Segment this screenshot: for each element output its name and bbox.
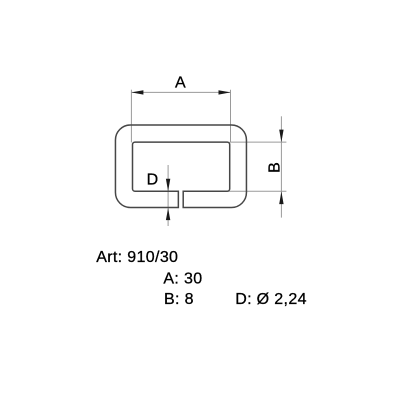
arrowhead B top — [279, 130, 283, 143]
label D — [147, 172, 159, 189]
caption Art — [96, 249, 178, 266]
svg-text:B: B — [267, 162, 284, 173]
dimension line A — [131, 91, 230, 93]
svg-text:A: 30: A: 30 — [163, 271, 202, 288]
svg-text:B: 8: B: 8 — [164, 291, 194, 308]
dimension line D — [167, 165, 169, 226]
arrowhead D top — [166, 179, 170, 192]
label B — [267, 162, 284, 173]
arrowhead A right — [219, 90, 231, 94]
ring outline (wire profile with gap) — [115, 125, 246, 208]
svg-text:D: D — [147, 172, 159, 189]
arrowhead D bottom — [166, 208, 170, 220]
svg-text:D: Ø 2,24: D: Ø 2,24 — [235, 291, 307, 308]
extension line B bottom — [225, 190, 286, 192]
caption A value — [163, 271, 202, 288]
extension line A right — [230, 90, 232, 143]
dimension line B — [280, 116, 282, 217]
svg-text:A: A — [175, 75, 186, 92]
caption D value — [235, 291, 307, 308]
arrowhead A left — [131, 90, 143, 94]
arrowhead B bottom — [279, 191, 283, 204]
svg-text:Art: 910/30: Art: 910/30 — [96, 249, 178, 266]
caption B value — [164, 291, 194, 308]
extension line B top — [230, 141, 287, 143]
extension line A left — [130, 90, 132, 143]
label A — [175, 75, 186, 92]
